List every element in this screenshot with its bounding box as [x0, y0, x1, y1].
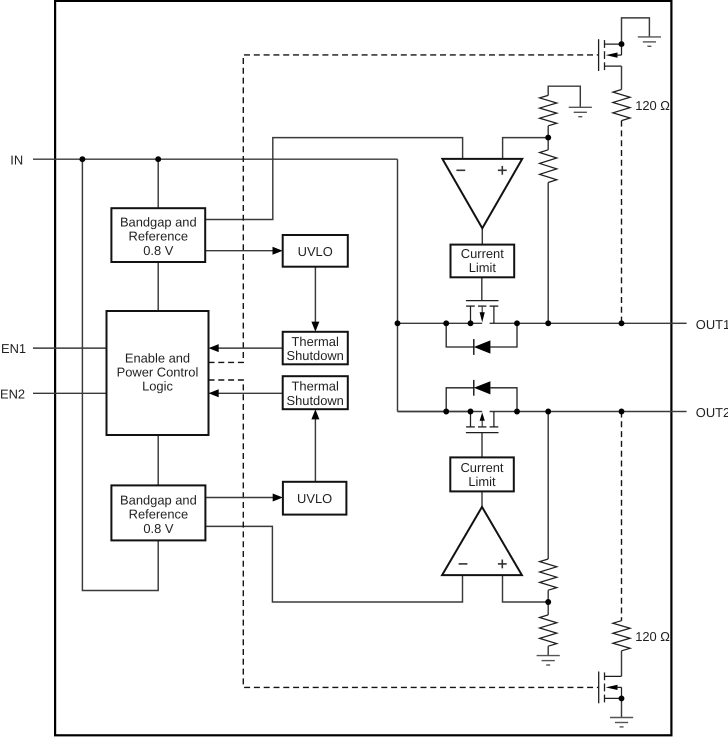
- svg-text:Shutdown: Shutdown: [287, 393, 344, 408]
- svg-text:UVLO: UVLO: [298, 244, 333, 259]
- svg-text:UVLO: UVLO: [297, 491, 332, 506]
- svg-text:Limit: Limit: [468, 474, 496, 489]
- svg-text:Bandgap and: Bandgap and: [120, 493, 197, 508]
- svg-text:Limit: Limit: [469, 260, 497, 275]
- svg-text:0.8 V: 0.8 V: [143, 243, 174, 258]
- svg-text:Current: Current: [461, 246, 504, 261]
- svg-text:0.8 V: 0.8 V: [143, 521, 174, 536]
- svg-text:IN: IN: [10, 152, 23, 167]
- svg-text:Enable and: Enable and: [125, 350, 190, 365]
- svg-text:120 Ω: 120 Ω: [635, 629, 670, 644]
- svg-text:EN1: EN1: [1, 341, 26, 356]
- svg-text:Thermal: Thermal: [292, 379, 339, 394]
- svg-text:OUT2: OUT2: [696, 405, 728, 420]
- svg-text:Power Control: Power Control: [117, 364, 199, 379]
- svg-text:Shutdown: Shutdown: [287, 348, 344, 363]
- svg-text:EN2: EN2: [0, 386, 25, 401]
- svg-text:Logic: Logic: [142, 378, 173, 393]
- svg-text:Reference: Reference: [129, 229, 188, 244]
- svg-text:Bandgap and: Bandgap and: [120, 215, 197, 230]
- svg-text:Thermal: Thermal: [292, 334, 339, 349]
- svg-text:Current: Current: [461, 460, 504, 475]
- svg-text:OUT1: OUT1: [696, 317, 728, 332]
- svg-text:120 Ω: 120 Ω: [635, 98, 670, 113]
- svg-text:Reference: Reference: [129, 507, 188, 522]
